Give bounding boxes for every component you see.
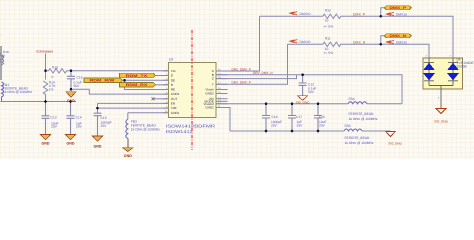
svg-text:+3.3Visolated: +3.3Visolated bbox=[35, 49, 53, 53]
capacitor C19 bbox=[262, 104, 270, 131]
svg-text:DMX_N: DMX_N bbox=[390, 34, 407, 38]
svg-text:0: 0 bbox=[3, 53, 5, 57]
svg-text:C12: C12 bbox=[308, 82, 314, 86]
resistor R14 bbox=[43, 71, 47, 102]
svg-text:SIG_GND: SIG_GND bbox=[388, 142, 402, 146]
svg-text:Y: Y bbox=[212, 82, 214, 86]
wire top row DMX_P y16.3 bbox=[260, 16, 454, 58]
svg-text:R10: R10 bbox=[325, 8, 331, 12]
offsheet arrow row2 left bbox=[290, 40, 297, 43]
svg-text:GND2: GND2 bbox=[205, 106, 214, 110]
ground SIG_GND rail2 end bbox=[386, 131, 403, 145]
svg-text:25V: 25V bbox=[101, 124, 108, 128]
IC pin stubs left bbox=[163, 71, 169, 113]
svg-text:ISOW1412BDFMR: ISOW1412BDFMR bbox=[166, 123, 216, 128]
wire pin A bbox=[216, 16, 260, 71]
capacitor C15 bbox=[94, 108, 102, 136]
svg-text:R15: R15 bbox=[52, 66, 58, 70]
port RDM_TX bbox=[119, 73, 155, 78]
wire port DMX_P stub bbox=[381, 8, 384, 16]
port RDM_RX bbox=[119, 83, 155, 88]
TVS diode array D4 body bbox=[423, 58, 462, 89]
svg-text:FERRITE_BEAD: FERRITE_BEAD bbox=[345, 136, 371, 140]
wire pin Z bbox=[216, 75, 297, 79]
resistor R11 bbox=[323, 42, 341, 46]
wire pin Y bbox=[216, 44, 288, 84]
wire EN line bbox=[98, 103, 169, 108]
svg-text:C16: C16 bbox=[77, 75, 83, 79]
svg-text:25V: 25V bbox=[319, 124, 326, 128]
resistor R10 bbox=[323, 14, 341, 18]
ferrite bead FB4 bbox=[348, 102, 367, 104]
op IC U2 body bbox=[169, 62, 217, 117]
wire Vcc rail y70.8 bbox=[46, 70, 169, 72]
port DMX_N bbox=[384, 34, 411, 38]
wire port RDM_R/W to DE bbox=[123, 79, 169, 81]
resistor R15 bbox=[49, 69, 67, 73]
svg-text:GND: GND bbox=[67, 99, 75, 103]
wire Viso rail y103.8 bbox=[216, 103, 402, 105]
port DMX_P bbox=[384, 6, 411, 10]
svg-text:Z: Z bbox=[212, 77, 214, 81]
TVS internal wires bbox=[429, 58, 453, 109]
svg-text:SIG_GND: SIG_GND bbox=[296, 100, 310, 104]
TVS pin numbers bbox=[426, 55, 452, 100]
svg-text:GND1: GND1 bbox=[171, 92, 180, 96]
connector fragment left edge bbox=[0, 46, 2, 80]
svg-text:50V: 50V bbox=[74, 84, 81, 88]
capacitor C18 bbox=[314, 104, 322, 131]
svg-text:SIG_GND: SIG_GND bbox=[434, 119, 448, 123]
no-connect cross on OUT bbox=[152, 97, 155, 100]
IC pin numbers right bbox=[218, 69, 221, 109]
ground SIG_GND under C12 bbox=[296, 96, 310, 105]
capacitor C17 bbox=[288, 104, 296, 131]
capacitor C13 bbox=[42, 102, 50, 135]
wire pin B long bbox=[216, 75, 402, 104]
svg-text:FB5: FB5 bbox=[345, 124, 351, 128]
svg-text:DRV_DMX_N: DRV_DMX_N bbox=[253, 71, 273, 75]
svg-text:1k Ohm @ 100MHz: 1k Ohm @ 100MHz bbox=[3, 90, 32, 94]
svg-text:50V: 50V bbox=[308, 90, 315, 94]
svg-text:C15: C15 bbox=[101, 116, 107, 120]
offsheet arrow row1 right bbox=[387, 12, 395, 15]
isolation barrier red dashed line bbox=[191, 30, 193, 150]
offsheet arrow row1 left bbox=[290, 12, 297, 15]
ground GND under C13 bbox=[41, 135, 51, 146]
svg-text:GND: GND bbox=[124, 154, 132, 158]
svg-text:EN: EN bbox=[171, 102, 175, 106]
svg-text:1%: 1% bbox=[49, 87, 54, 91]
svg-text:GND1: GND1 bbox=[171, 111, 180, 115]
IC pin stubs right bbox=[216, 71, 228, 108]
ferrite bead FB5 bbox=[344, 129, 362, 131]
svg-text:10: 10 bbox=[325, 19, 329, 23]
IC pin numbers left bbox=[165, 68, 168, 113]
capacitor C16 bbox=[67, 71, 75, 90]
svg-text:+/- 5%: +/- 5% bbox=[324, 24, 334, 28]
svg-text:+/- 5%: +/- 5% bbox=[324, 51, 334, 55]
wire row2 DMX_N y44.3 bbox=[288, 44, 430, 58]
ground GND under C14 bbox=[66, 135, 76, 146]
svg-text:GND: GND bbox=[67, 141, 75, 145]
wire gnd rail left y101.5 bbox=[1, 101, 77, 103]
ground SIG_GND under TVS bbox=[434, 109, 448, 124]
svg-text:FB4: FB4 bbox=[349, 97, 355, 101]
wire port RDM_TX stub bbox=[155, 75, 168, 77]
svg-text:C18: C18 bbox=[319, 115, 325, 119]
svg-text:ISOW1412: ISOW1412 bbox=[166, 129, 194, 134]
svg-text:FERRITE_BEAD: FERRITE_BEAD bbox=[349, 112, 375, 116]
wire RDM_R/W to RE bbox=[125, 80, 169, 89]
ground GND under FB3 bbox=[123, 139, 133, 159]
svg-text:Vcc: Vcc bbox=[171, 69, 177, 73]
svg-text:RDM_R/W: RDM_R/W bbox=[90, 79, 116, 83]
wire +3.3Visolated vertical bbox=[45, 54, 47, 71]
wire FB3 line bbox=[128, 113, 169, 120]
wire rail2 y131 bbox=[230, 130, 391, 132]
svg-text:1k Ohm @ 100MHz: 1k Ohm @ 100MHz bbox=[349, 117, 378, 121]
svg-text:ED90B: ED90B bbox=[457, 64, 467, 68]
svg-text:Vdd: Vdd bbox=[171, 106, 177, 110]
resistor fragment R16 left edge bbox=[0, 53, 4, 66]
svg-text:25V: 25V bbox=[76, 124, 83, 128]
svg-text:GND: GND bbox=[94, 145, 102, 149]
pin OUT no-connect stub bbox=[153, 98, 169, 100]
svg-text:RDM_TX: RDM_TX bbox=[126, 74, 148, 78]
svg-text:GND: GND bbox=[42, 141, 50, 145]
svg-text:1k Ohm @ 100MHz: 1k Ohm @ 100MHz bbox=[345, 141, 374, 145]
svg-text:DE: DE bbox=[171, 78, 175, 82]
svg-text:DMX_P: DMX_P bbox=[353, 12, 366, 16]
svg-text:C14: C14 bbox=[76, 116, 82, 120]
ferrite bead FB3 bbox=[126, 119, 128, 138]
svg-text:RDM_RX: RDM_RX bbox=[126, 83, 148, 87]
svg-text:DMX_P: DMX_P bbox=[390, 6, 407, 10]
ferrite bead FB1 bbox=[2, 82, 4, 102]
svg-text:C17: C17 bbox=[296, 115, 302, 119]
offsheet arrow row2 right bbox=[387, 40, 395, 43]
svg-text:U2: U2 bbox=[169, 58, 174, 62]
wire Vdd line bbox=[98, 107, 169, 109]
svg-text:DMX20: DMX20 bbox=[300, 40, 311, 44]
TVS diodes bbox=[423, 63, 459, 81]
svg-text:25V: 25V bbox=[51, 124, 58, 128]
ground GND under C16 bbox=[66, 92, 76, 103]
sheet background bbox=[0, 0, 474, 159]
ferrite FB1 upper fragment bbox=[2, 55, 4, 63]
svg-text:GND2: GND2 bbox=[205, 92, 214, 96]
capacitor C12 bbox=[299, 75, 307, 96]
wire port DMX_N stub bbox=[381, 36, 384, 45]
svg-text:RE: RE bbox=[171, 88, 175, 92]
svg-text:25V: 25V bbox=[271, 124, 278, 128]
svg-text:DRV_DMX_P: DRV_DMX_P bbox=[232, 81, 251, 85]
wire GND2 to rail2 bbox=[216, 108, 230, 132]
ground GND under C15 bbox=[93, 136, 103, 149]
svg-text:DMX_N: DMX_N bbox=[353, 40, 366, 44]
svg-text:0: 0 bbox=[52, 75, 54, 79]
svg-text:C13: C13 bbox=[51, 116, 57, 120]
svg-text:25V: 25V bbox=[297, 124, 304, 128]
IC pin names right bbox=[204, 69, 215, 110]
svg-text:DMX20: DMX20 bbox=[396, 41, 407, 45]
svg-text:DMX10: DMX10 bbox=[300, 12, 311, 16]
IC pin names left bbox=[171, 69, 180, 115]
capacitor C14 bbox=[67, 102, 75, 135]
svg-text:DMX10: DMX10 bbox=[396, 13, 407, 17]
wire C16 gnd to IC GND1 bbox=[71, 89, 169, 94]
port RDM_R/W bbox=[84, 78, 123, 83]
svg-text:DRV_DMX_P: DRV_DMX_P bbox=[232, 67, 251, 71]
svg-text:C16: C16 bbox=[272, 115, 278, 119]
wire port RDM_RX stub bbox=[155, 84, 168, 86]
svg-text:1k Ohm @ 100MHz: 1k Ohm @ 100MHz bbox=[131, 127, 160, 131]
svg-text:R11: R11 bbox=[325, 36, 331, 40]
svg-text:OUT: OUT bbox=[171, 97, 178, 101]
